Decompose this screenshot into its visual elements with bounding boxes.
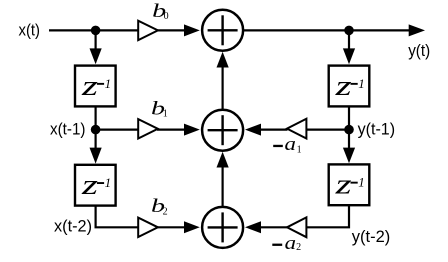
junction dot: y(t-1) tap [344, 125, 354, 135]
node y(t-1) label [358, 119, 396, 138]
gain b0 (buffer triangle) [138, 21, 158, 40]
wire: gain b2 to adder U3 with arrowhead [157, 221, 200, 233]
svg-text:1: 1 [358, 175, 365, 190]
svg-text:y(t): y(t) [408, 41, 430, 60]
delay Z4 (right lower z^-1 block) [329, 164, 370, 205]
svg-text:2: 2 [163, 206, 168, 217]
svg-text:z: z [334, 169, 351, 201]
gain -a1 (left-pointing triangle) [287, 119, 306, 139]
svg-text:a: a [285, 134, 296, 155]
wire: x(t) input to gain b0 [49, 29, 138, 31]
svg-text:y(t-1): y(t-1) [358, 119, 396, 138]
wire: gain b1 to adder U2 with arrowhead [157, 124, 200, 136]
gain b1 (buffer triangle) [138, 119, 158, 138]
svg-text:x(t-2): x(t-2) [54, 216, 92, 235]
svg-text:0: 0 [164, 11, 169, 22]
node y(t-2) label [352, 227, 391, 246]
gain b2 (buffer triangle) [138, 218, 158, 237]
value label b0 [152, 1, 168, 22]
node x(t-2) label [54, 216, 92, 235]
wire: adder U2 up to adder U1 with arrowhead [217, 52, 229, 110]
svg-text:2: 2 [296, 242, 301, 253]
junction dot: y(t) tap [344, 26, 354, 36]
delay Z1 (left z^-1 block) [75, 66, 116, 107]
adder U2 (middle summing junction) [202, 110, 243, 151]
delay Z3 (right z^-1 block) [329, 66, 370, 107]
wire: gain -a1 to adder U2 with arrowhead [245, 124, 288, 136]
wire: adder U3 up to adder U2 with arrowhead [217, 152, 229, 207]
svg-text:z: z [81, 70, 98, 102]
wire: delay Z1 to x(t-1) node [94, 107, 96, 130]
svg-text:1: 1 [105, 76, 112, 91]
junction dot: x(t) tap [91, 26, 101, 36]
node x(t) input label [19, 20, 41, 39]
wire: y(t) tap down to delay Z3 with arrowhead [343, 30, 355, 64]
wire: gain b0 to adder U1 with arrowhead [157, 24, 200, 36]
delay Z2 (left lower z^-1 block) [75, 165, 116, 206]
svg-text:a: a [285, 233, 296, 254]
wire: x(t-1) tap down to delay Z2 with arrowhead [90, 130, 102, 164]
wire: x(t-1) to gain b1 [96, 129, 138, 131]
svg-text:x(t): x(t) [19, 20, 41, 39]
wire: delay Z3 to y(t-1) node [348, 107, 350, 130]
svg-text:z: z [81, 169, 98, 201]
svg-text:1: 1 [163, 109, 168, 120]
svg-text:1: 1 [358, 76, 365, 91]
wire: delay Z2 down and right to gain b2 [96, 206, 138, 227]
junction dot: x(t-1) tap [91, 125, 101, 135]
svg-text:x(t-1): x(t-1) [50, 119, 86, 138]
wire: gain -a2 to adder U3 with arrowhead [245, 221, 288, 233]
value label -a2 [272, 233, 301, 254]
node y(t) output label [408, 41, 430, 60]
svg-text:1: 1 [297, 144, 302, 155]
wire: y(t-1) to gain -a1 [307, 129, 349, 131]
adder U1 (top summing junction) [202, 10, 243, 51]
wire: x(t) tap down to delay Z1 with arrowhead [90, 30, 102, 64]
value label b2 [151, 196, 168, 217]
svg-text:z: z [334, 70, 351, 102]
svg-text:1: 1 [105, 175, 112, 190]
adder U3 (bottom summing junction) [202, 207, 243, 248]
wire: y(t-1) tap down to delay Z4 with arrowhead [343, 130, 355, 164]
wire: adder U1 to y(t) output with arrowhead [244, 24, 425, 36]
gain -a2 (left-pointing triangle) [287, 217, 306, 237]
svg-text:y(t-2): y(t-2) [352, 227, 391, 246]
value label -a1 [273, 134, 301, 155]
node x(t-1) label [50, 119, 86, 138]
wire: delay Z4 down and left to gain -a2 [307, 206, 349, 228]
value label b1 [151, 99, 168, 120]
